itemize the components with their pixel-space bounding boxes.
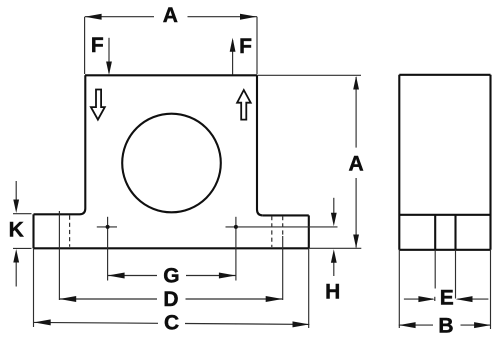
svg-text:B: B (438, 315, 453, 338)
svg-text:F: F (91, 34, 104, 57)
svg-text:C: C (164, 312, 179, 335)
svg-text:A: A (163, 4, 178, 27)
C dim line (34, 322, 309, 324)
E dim line left (404, 298, 433, 300)
K ext bottom (13, 247, 32, 249)
left slot hidden line (69, 216, 71, 247)
right slot inner hidden line (271, 216, 273, 247)
left slot outer line / D ext (58, 211, 60, 300)
svg-text:A: A (349, 153, 364, 176)
side view left ext for B (398, 250, 400, 328)
right A dim line lower (355, 178, 357, 248)
bore circle (122, 114, 221, 213)
left bolt vertical / G ext (107, 217, 109, 281)
side view base top line (399, 214, 490, 216)
right slot outer hidden line (282, 216, 284, 236)
arrow G right (219, 273, 236, 279)
side view slot left line (434, 215, 436, 250)
svg-text:H: H (325, 280, 340, 303)
hollow arrow left (down) (91, 90, 105, 120)
arrow B right (474, 322, 491, 328)
side slot left ext for E (434, 250, 436, 289)
side view top edge (399, 74, 490, 76)
E dim line right (458, 298, 489, 300)
right A dim line upper (355, 77, 357, 148)
body right edge with fillet (257, 75, 263, 215)
arrow right-A top (up) (353, 76, 359, 90)
H dim line upper (333, 198, 335, 215)
B dim line (399, 324, 491, 326)
arrow C right (293, 321, 310, 327)
arrow G left (108, 273, 125, 279)
arrow F right (up) (230, 38, 236, 52)
body left edge with fillet (80, 75, 86, 214)
base top right segment (263, 214, 309, 216)
C left ext (base left edge continued) (33, 248, 35, 327)
bolt center line to H dim (226, 226, 338, 228)
ext line top-A right (256, 17, 258, 74)
arrow D left (59, 296, 76, 302)
arrow H bottom (up) (331, 249, 337, 262)
body top edge (85, 74, 257, 76)
left bolt cross arm (97, 226, 117, 228)
top edge extension to A dim (257, 74, 361, 76)
K down arrow line (15, 181, 17, 202)
left bolt center dot (106, 225, 110, 229)
arrow E right (points left) (456, 296, 473, 302)
right D ext line (282, 236, 284, 300)
F left arrow line (108, 38, 110, 73)
right bolt vertical / G ext (235, 217, 237, 281)
K ext top (13, 213, 32, 215)
arrow H top (down) (331, 213, 337, 227)
side view left edge (398, 75, 400, 250)
arrow F left (down) (106, 62, 112, 76)
base bottom extension to A/H dims (309, 247, 361, 249)
C right ext (308, 249, 310, 328)
arrow C left (34, 319, 51, 325)
side slot right ext for E (455, 250, 457, 299)
hollow arrow right (up) (237, 90, 251, 120)
right bolt center dot (234, 225, 238, 229)
base right edge (308, 215, 310, 248)
side view base bottom line (399, 249, 490, 251)
svg-text:D: D (163, 288, 178, 311)
arrow top-A left (85, 14, 102, 20)
D dim line (59, 298, 282, 300)
arrow right-A bottom (down) (353, 235, 359, 249)
arrow B left (399, 322, 416, 328)
base left edge (32, 214, 34, 248)
K up arrow line (15, 261, 17, 287)
arrow top-A right (240, 14, 257, 20)
base bottom edge (34, 247, 309, 249)
G dim line (108, 275, 236, 277)
arrow E left (points right) (418, 296, 435, 302)
arrow D right (266, 296, 283, 302)
H dim line lower tail (333, 261, 335, 276)
dim line top A (85, 16, 257, 18)
side view right ext for B (490, 250, 492, 329)
svg-text:G: G (163, 265, 179, 288)
svg-text:K: K (9, 218, 24, 241)
base top left segment (34, 213, 80, 215)
F right arrow line (232, 40, 234, 75)
side slot left ext tick at E line (434, 297, 436, 301)
svg-text:F: F (239, 35, 252, 58)
side view right edge (489, 75, 491, 250)
side view slot right line (454, 215, 456, 250)
arrow K bottom (up) (13, 249, 19, 263)
arrow K top (down) (13, 200, 19, 214)
svg-text:E: E (440, 287, 454, 310)
ext line top-A left (84, 17, 86, 74)
